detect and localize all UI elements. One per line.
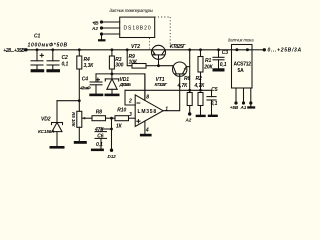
svg-text:КТ825Г: КТ825Г [170, 44, 186, 50]
svg-text:R10: R10 [117, 108, 126, 114]
svg-text:D12: D12 [108, 154, 117, 159]
svg-text:А1: А1 [240, 105, 247, 110]
svg-text:VT2: VT2 [131, 44, 140, 50]
svg-text:0,1: 0,1 [220, 62, 227, 68]
svg-text:С5: С5 [211, 87, 218, 93]
svg-text:+5В: +5В [92, 20, 99, 25]
svg-text:20К: 20К [203, 65, 213, 71]
svg-text:8: 8 [146, 94, 149, 100]
svg-text:С6: С6 [97, 133, 104, 139]
svg-text:10К: 10К [129, 59, 138, 65]
svg-text:С2: С2 [62, 55, 69, 61]
svg-text:КТ315Г: КТ315Г [155, 82, 168, 87]
svg-text:Д816Б: Д816Б [119, 82, 132, 87]
svg-text:0,1: 0,1 [211, 101, 218, 107]
svg-text:4,7К: 4,7К [194, 83, 206, 89]
svg-text:+28...+35В: +28...+35В [3, 48, 25, 54]
svg-text:4: 4 [145, 128, 149, 134]
svg-text:47мкФ: 47мкФ [79, 86, 91, 91]
svg-text:R8: R8 [96, 109, 103, 115]
svg-text:DS18B20: DS18B20 [124, 26, 151, 32]
svg-text:А2: А2 [91, 26, 98, 31]
svg-text:1000мкФ*50В: 1000мкФ*50В [28, 43, 68, 49]
svg-text:А2: А2 [185, 118, 192, 123]
svg-text:С1: С1 [34, 33, 41, 39]
svg-text:300: 300 [115, 62, 123, 68]
svg-text:датчик тока: датчик тока [228, 37, 254, 42]
svg-text:R1: R1 [205, 58, 212, 64]
svg-text:1: 1 [165, 106, 168, 112]
svg-text:0,1: 0,1 [96, 142, 103, 148]
svg-text:VD2: VD2 [41, 117, 51, 123]
svg-text:3,3К: 3,3К [84, 63, 95, 69]
svg-text:3: 3 [129, 112, 132, 118]
svg-text:LM358: LM358 [138, 109, 157, 115]
svg-text:датчик температуры: датчик температуры [110, 8, 154, 13]
svg-text:С4: С4 [82, 76, 89, 82]
svg-text:47К: 47К [94, 127, 104, 133]
svg-text:R6: R6 [184, 76, 191, 82]
svg-text:4,7К: 4,7К [177, 83, 189, 89]
svg-text:С3: С3 [222, 50, 229, 56]
svg-text:АCS712: АCS712 [234, 62, 252, 68]
svg-text:R5 10К: R5 10К [71, 112, 76, 128]
svg-text:+5В: +5В [230, 105, 239, 110]
svg-text:КС156А: КС156А [38, 129, 54, 134]
svg-text:R2: R2 [196, 76, 203, 82]
svg-text:0...+25В/3А: 0...+25В/3А [268, 48, 302, 54]
svg-text:2: 2 [128, 99, 132, 105]
svg-text:0,1: 0,1 [62, 61, 69, 67]
svg-text:5А: 5А [238, 68, 245, 74]
